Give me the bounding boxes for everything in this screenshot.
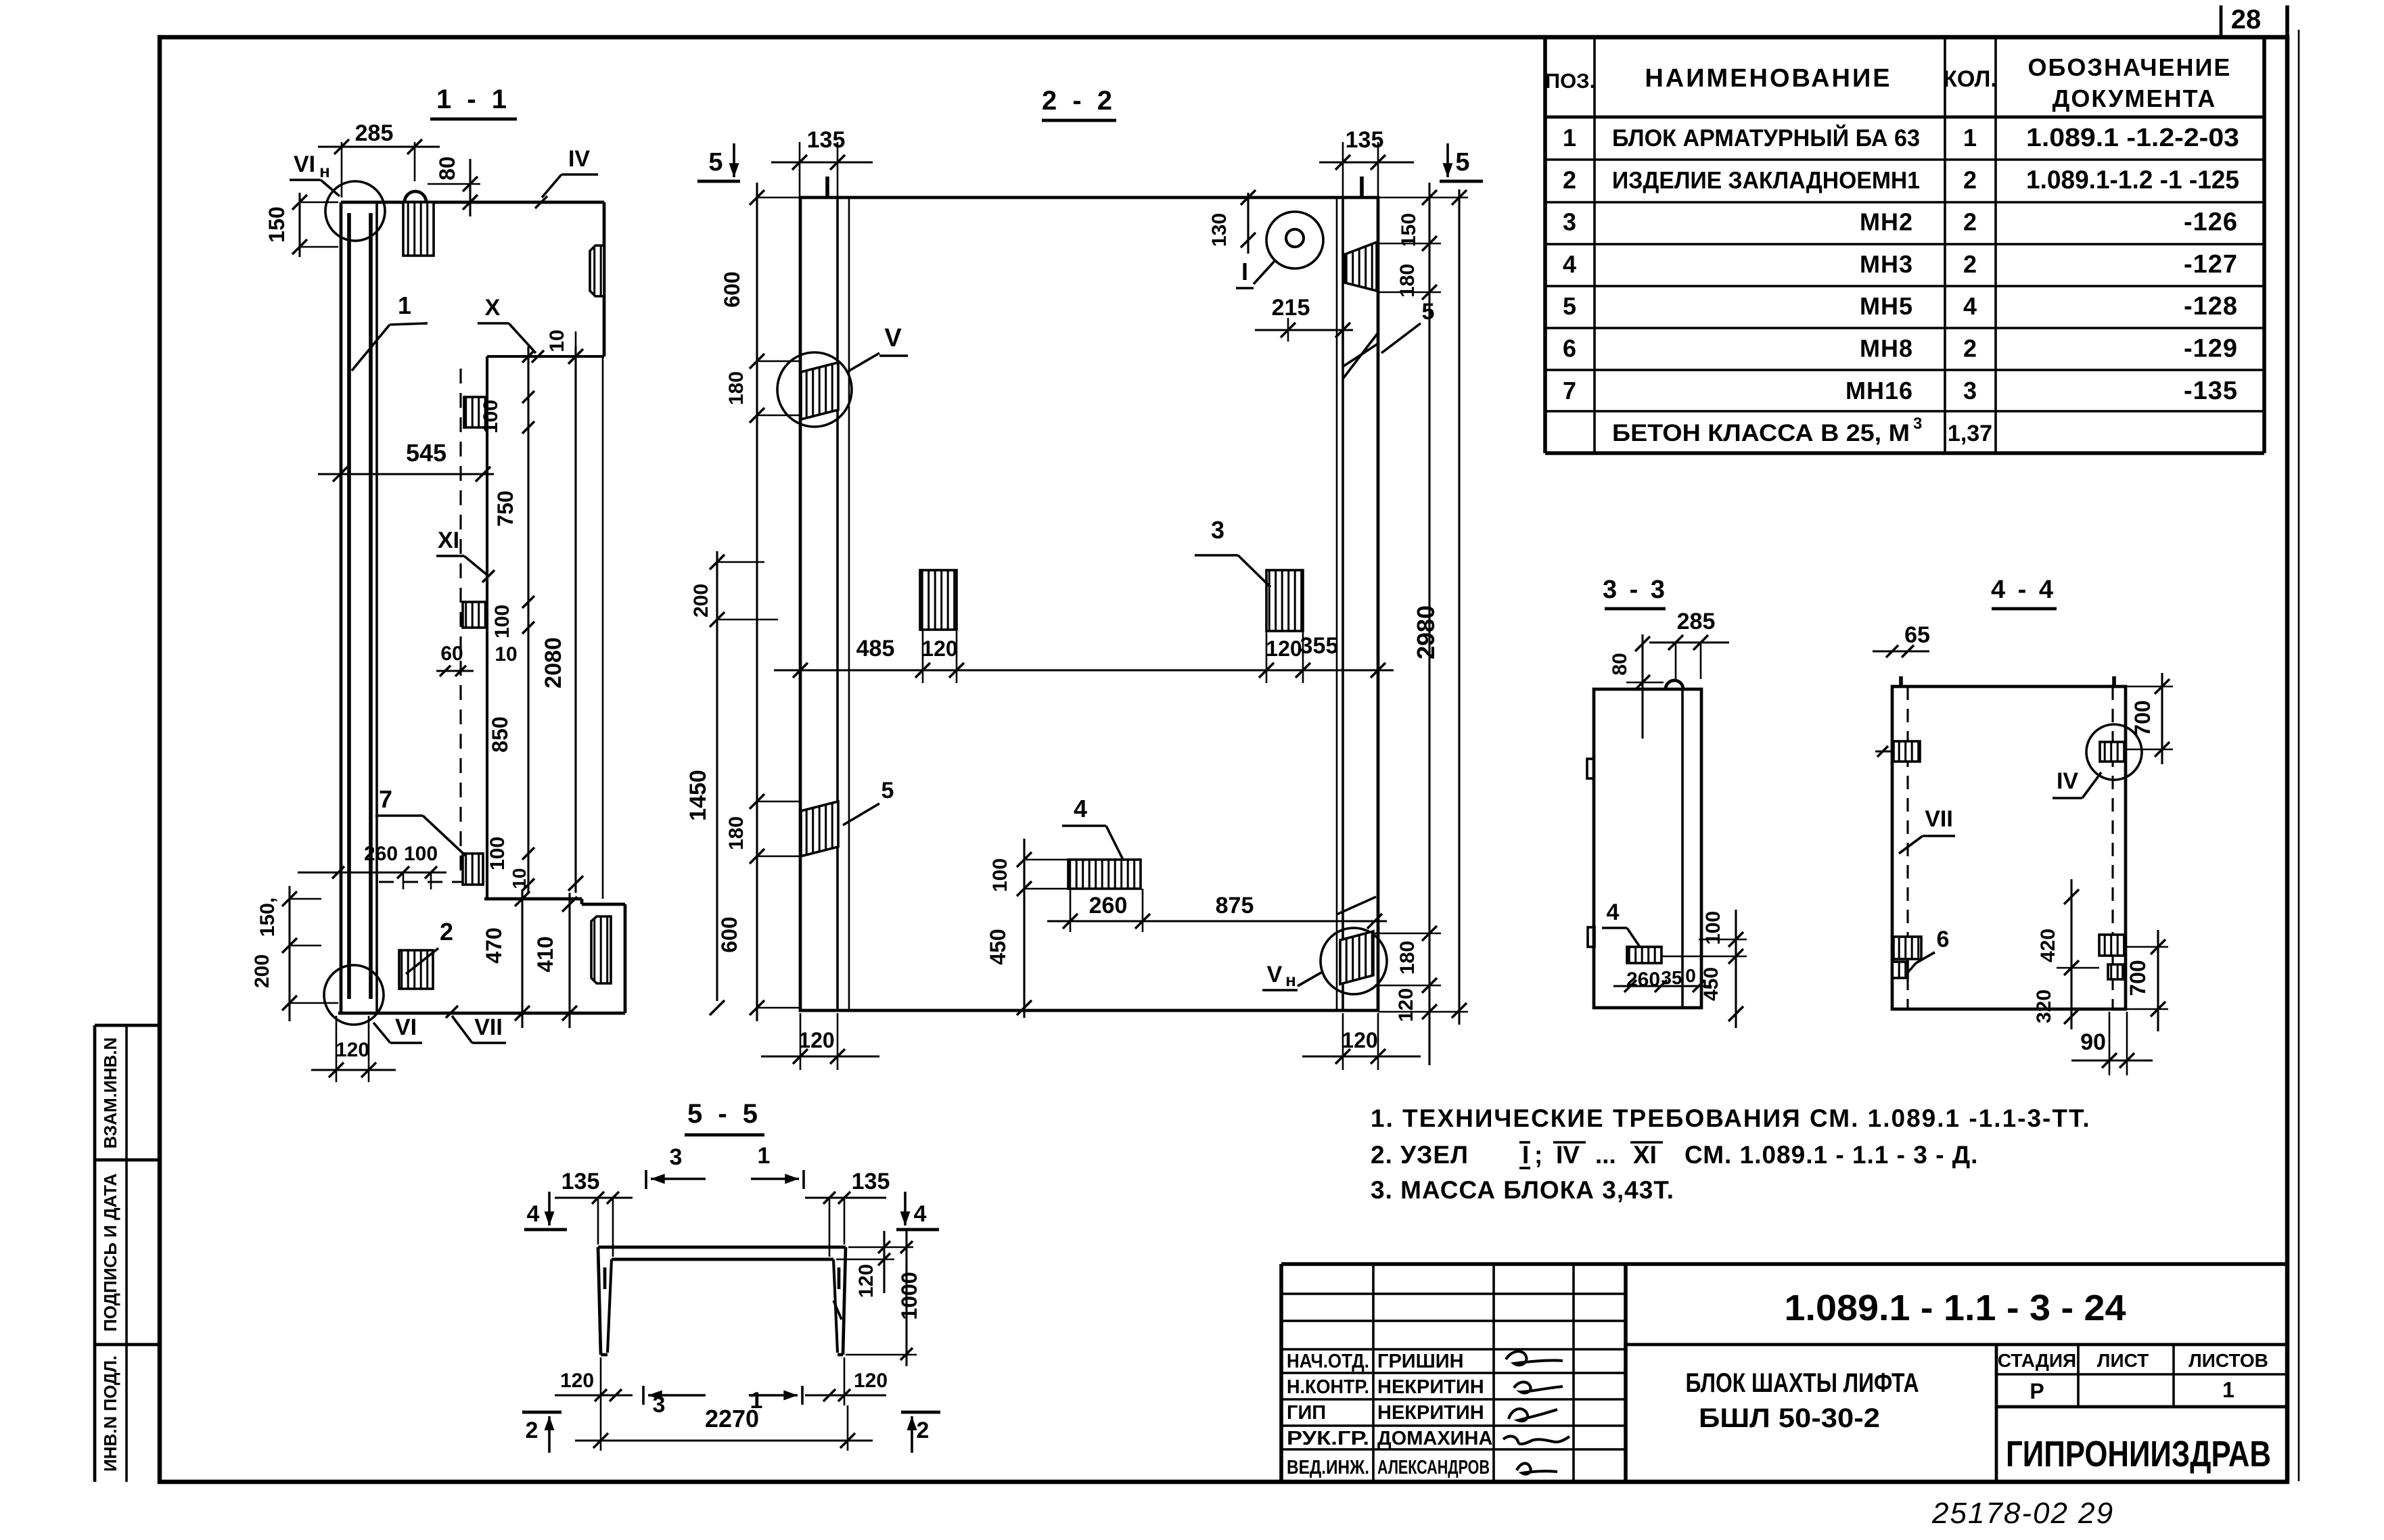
svg-text:3: 3 [1211,516,1224,544]
left outer chain 200 1450 [716,551,718,1001]
signature squiggle 3 [1509,1409,1557,1421]
svg-text:1: 1 [2222,1378,2234,1402]
svg-text:ГИП: ГИП [1287,1402,1326,1424]
svg-text:2 - 2: 2 - 2 [1042,86,1116,116]
svg-text:-127: -127 [2184,250,2238,279]
svg-text:...: ... [1595,1141,1616,1169]
svg-text:VI: VI [294,151,315,177]
svg-text:150,: 150, [256,897,279,937]
svg-text:3: 3 [1963,377,1977,404]
svg-text:V: V [884,324,902,352]
svg-text:120: 120 [1342,1028,1377,1052]
view 1-1 hidden dashed line [459,369,461,879]
svg-text:120: 120 [1266,636,1302,661]
svg-text:1: 1 [758,1143,771,1169]
view 2-2 right wall inner [1342,197,1344,1010]
embedded box 4 bottom [1068,860,1141,889]
svg-text:485: 485 [856,636,895,661]
right paper edge line [2298,30,2300,1481]
svg-text:180: 180 [725,371,748,405]
svg-text:1: 1 [1963,124,1977,151]
svg-text:IV: IV [568,146,590,172]
bar mark left leg [603,1267,607,1289]
svg-text:260: 260 [1626,969,1660,991]
left stamp column boxes [93,1025,97,1482]
svg-text:МН5: МН5 [1860,292,1913,320]
svg-text:;: ; [1534,1141,1542,1169]
view 1-1 step line [486,356,488,899]
svg-text:АЛЕКСАНДРОВ: АЛЕКСАНДРОВ [1377,1457,1490,1478]
svg-text:ВЕД.ИНЖ.: ВЕД.ИНЖ. [1287,1457,1369,1478]
svg-text:НЕКРИТИН: НЕКРИТИН [1377,1402,1484,1424]
svg-text:700: 700 [2126,960,2150,996]
svg-text:28: 28 [2231,5,2262,34]
svg-text:5: 5 [881,778,894,803]
title block outer [1279,1264,1283,1482]
svg-text:200: 200 [690,584,712,617]
svg-text:4: 4 [914,1201,927,1227]
wedge embedded left-lower [801,801,838,856]
embedded plate top-right view4 [2100,742,2125,762]
title block signature grid [1372,1264,1375,1482]
svg-text:875: 875 [1216,893,1254,918]
svg-text:120: 120 [921,636,957,661]
svg-text:БЛОК АРМАТУРНЫЙ БА 63: БЛОК АРМАТУРНЫЙ БА 63 [1612,124,1920,151]
dim 100 450 chain [1023,839,1025,1018]
svg-text:450: 450 [986,929,1010,964]
svg-text:XI: XI [438,528,459,553]
svg-text:100: 100 [480,400,502,434]
embedded box c [463,602,486,628]
edge loop element upper [590,246,604,296]
svg-text:ИНВ.N ПОДЛ.: ИНВ.N ПОДЛ. [100,1355,120,1472]
svg-text:X: X [485,295,501,321]
svg-text:5: 5 [1563,292,1576,320]
svg-text:НЕКРИТИН: НЕКРИТИН [1377,1376,1484,1398]
svg-text:V: V [1267,962,1283,987]
svg-text:135: 135 [561,1169,600,1194]
channel top slab [598,1246,846,1249]
svg-text:7: 7 [1563,377,1576,404]
svg-text:120: 120 [336,1039,369,1061]
svg-text:4: 4 [1607,900,1620,925]
section mark 2 left [522,1411,561,1414]
rebar stub right view4 [2112,676,2116,686]
wedge lines below node I [1343,333,1378,379]
embedded box VH [1340,931,1373,984]
view 1-1 side projection line [602,356,604,899]
node circle top-left [325,181,385,241]
signature squiggle 2 [1514,1382,1563,1393]
embedded box d [463,854,483,885]
svg-text:5 - 5: 5 - 5 [687,1099,762,1129]
embedded box mid-left [920,570,957,630]
signature squiggle 5 [1517,1464,1557,1474]
rebar stub left view4 [1899,676,1903,686]
svg-text:130: 130 [1208,213,1231,247]
svg-text:4 - 4: 4 - 4 [1991,576,2056,604]
svg-text:215: 215 [1272,295,1310,321]
chain dim line 1-1 [527,346,529,893]
svg-text:90: 90 [2080,1029,2106,1055]
view 3-3 top loop [1666,680,1683,689]
svg-text:120: 120 [854,1370,888,1392]
svg-text:180: 180 [1396,941,1419,975]
svg-text:65: 65 [1904,622,1930,648]
view 1-1 left wall outer [340,202,343,1013]
rebar stub left [825,177,829,197]
svg-text:1 - 1: 1 - 1 [436,85,511,114]
view 4-4 outline [1892,686,2126,1009]
svg-text:120: 120 [1395,988,1417,1022]
svg-text:135: 135 [852,1169,890,1194]
svg-text:285: 285 [1677,609,1716,634]
svg-text:4: 4 [1563,250,1576,278]
embedded box 2 bottom-left [399,950,433,989]
view 3-3 left lug lower [1588,927,1595,947]
svg-text:3 - 3: 3 - 3 [1603,576,1668,604]
view 1-1 right edge upper [603,202,606,356]
svg-text:700: 700 [2130,700,2155,736]
svg-text:80: 80 [1609,653,1631,675]
svg-text:120: 120 [798,1028,834,1052]
svg-text:IV: IV [2057,768,2078,794]
svg-text:2: 2 [1963,335,1977,363]
view 2-2 outline [800,197,1378,1010]
svg-text:2: 2 [917,1418,930,1443]
embedded box view3 [1627,947,1661,963]
svg-text:2270: 2270 [705,1405,759,1432]
svg-text:БШЛ 50-30-2: БШЛ 50-30-2 [1699,1403,1880,1433]
embedded part box top [403,202,434,256]
view 4-4 dashed line right [2111,686,2113,1009]
svg-text:450: 450 [1700,967,1722,1001]
svg-text:320: 320 [2033,989,2055,1023]
svg-text:2: 2 [526,1418,538,1443]
svg-text:100: 100 [404,843,438,865]
svg-text:-135: -135 [2184,377,2238,405]
wedge embedded left-upper [801,363,838,419]
svg-text:I: I [1522,1141,1529,1169]
rebar bar right [369,213,373,999]
svg-text:600: 600 [717,916,741,952]
svg-text:135: 135 [807,127,846,153]
view 1-1 hidden dashed bottom [379,881,484,883]
node circle IV view4 [2086,724,2142,780]
svg-text:3: 3 [670,1144,683,1170]
rebar stub right [1360,177,1364,197]
view 3-3 left lug upper [1587,759,1594,778]
svg-text:Н.КОНТР.: Н.КОНТР. [1287,1376,1369,1398]
view 3-3 outline [1594,689,1701,1008]
view 1-1 bottom flange right [624,904,627,1013]
svg-text:ГРИШИН: ГРИШИН [1377,1351,1464,1372]
svg-text:3: 3 [1563,208,1576,236]
svg-text:2: 2 [1963,250,1977,278]
title block main divider [1626,1343,2285,1347]
svg-text:МН2: МН2 [1860,208,1913,236]
page number box [2220,5,2223,37]
svg-text:МН3: МН3 [1860,250,1913,278]
dim 260 875 line [1047,920,1387,922]
embedded box b [464,397,486,427]
svg-text:100: 100 [486,837,509,870]
view 1-1 bottom edge [338,1012,625,1015]
svg-text:XI: XI [1633,1141,1657,1169]
section mark 2 right [901,1411,940,1414]
embedded plate top-left view4 [1894,741,1920,762]
svg-text:1.089.1-1.2 -1 -125: 1.089.1-1.2 -1 -125 [2026,166,2239,194]
svg-text:ГИПРОНИИЗДРАВ: ГИПРОНИИЗДРАВ [2006,1434,2271,1474]
svg-text:ПОДПИСЬ И ДАТА: ПОДПИСЬ И ДАТА [100,1173,120,1332]
svg-text:ВЗАМ.ИНВ.N: ВЗАМ.ИНВ.N [100,1037,120,1149]
svg-text:200: 200 [251,954,273,988]
svg-text:ЛИСТ: ЛИСТ [2097,1350,2149,1371]
svg-text:МН8: МН8 [1860,335,1913,363]
svg-text:3. МАССА БЛОКА 3,43Т.: 3. МАССА БЛОКА 3,43Т. [1371,1176,1674,1204]
svg-text:5: 5 [1455,148,1469,177]
view 1-1 top edge [341,201,604,204]
view 1-1 notch top [487,355,604,358]
svg-text:БЛОК ШАХТЫ ЛИФТА: БЛОК ШАХТЫ ЛИФТА [1686,1368,1919,1398]
svg-text:2080: 2080 [541,637,566,689]
svg-text:2: 2 [1563,166,1576,193]
svg-text:VI: VI [395,1014,417,1040]
svg-text:10: 10 [495,643,517,666]
svg-text:Р: Р [2030,1379,2044,1403]
svg-text:1.089.1 -1.2-2-03: 1.089.1 -1.2-2-03 [2026,124,2239,152]
svg-text:2: 2 [440,918,453,946]
svg-text:1: 1 [1563,124,1576,151]
svg-text:ИЗДЕЛИЕ ЗАКЛАДНОЕМН1: ИЗДЕЛИЕ ЗАКЛАДНОЕМН1 [1612,167,1920,193]
svg-text:ПОЗ.: ПОЗ. [1545,69,1595,93]
signature squiggle 1 [1506,1351,1563,1365]
diagonal mark right leg [833,1301,842,1320]
svg-text:60: 60 [440,643,463,665]
svg-text:2980: 2980 [1412,605,1440,659]
bar mark right leg [838,1267,841,1289]
view 1-1 bottom flange top [484,897,582,901]
view 3-3 inner wall line [1681,689,1684,1008]
svg-text:120: 120 [560,1370,594,1392]
svg-text:420: 420 [2037,929,2059,962]
embedded box mid-right pos3 [1266,570,1303,631]
svg-text:10: 10 [509,868,530,889]
svg-text:СТАДИЯ: СТАДИЯ [1998,1350,2076,1371]
svg-text:СМ. 1.089.1 - 1.1 - 3 - Д.: СМ. 1.089.1 - 1.1 - 3 - Д. [1684,1141,1978,1169]
section mark 5 right [1446,143,1449,177]
svg-text:1000: 1000 [897,1271,921,1320]
svg-text:25178-02 29: 25178-02 29 [1931,1497,2114,1530]
svg-text:285: 285 [355,120,394,146]
svg-text:1,37: 1,37 [1948,421,1992,446]
svg-text:100: 100 [491,605,513,638]
left inner chain [756,183,758,1021]
node circle bottom-left [324,965,384,1025]
svg-text:260: 260 [364,843,398,865]
stadia list listov box [1995,1345,1998,1482]
svg-text:2: 2 [1963,166,1977,193]
node I circle [1266,212,1323,269]
svg-text:н: н [1285,970,1296,990]
svg-text:ДОМАХИНА: ДОМАХИНА [1377,1428,1492,1449]
svg-text:НАЧ.ОТД.: НАЧ.ОТД. [1287,1351,1369,1372]
view 2-2 left wall reveal [848,197,850,1010]
svg-text:3: 3 [1913,415,1922,433]
section mark 4 right [904,1192,907,1226]
svg-text:410: 410 [533,936,557,972]
embedded plate bottom-left view4 [1894,937,1921,959]
parts table grid [1543,37,1547,453]
svg-text:470: 470 [482,927,506,963]
svg-text:РУК.ГР.: РУК.ГР. [1287,1428,1369,1449]
svg-text:н: н [319,161,330,181]
channel left leg [598,1247,601,1355]
view 2-2 right wall reveal [1336,197,1338,1010]
channel right leg [843,1247,846,1355]
svg-text:ДОКУМЕНТА: ДОКУМЕНТА [2053,85,2217,112]
node VH circle [1321,928,1387,994]
svg-text:545: 545 [406,439,446,467]
node I inner circle [1286,229,1304,247]
svg-text:850: 850 [488,716,512,752]
wedge lines bottom-right [1337,897,1376,914]
right chain dim line [1428,183,1430,1065]
svg-text:100: 100 [989,858,1011,892]
svg-text:150: 150 [265,206,289,242]
embedded plate bottom-right view4 [2099,935,2124,956]
svg-text:IV: IV [1556,1141,1580,1169]
svg-text:1450: 1450 [685,770,711,821]
svg-text:750: 750 [493,490,518,526]
view 4-4 dashed line left [1906,686,1908,1009]
svg-text:0: 0 [1685,965,1696,986]
svg-text:-128: -128 [2184,292,2238,321]
rebar bar left [347,213,351,999]
view 2-2 left wall inner [836,197,839,1010]
svg-text:VII: VII [1925,806,1953,832]
note roman overlines [1519,1141,1530,1144]
svg-text:2. УЗЕЛ: 2. УЗЕЛ [1371,1141,1469,1169]
node V circle [777,352,852,427]
svg-text:180: 180 [725,816,748,850]
view 1-1 left wall inner [375,202,378,1013]
svg-text:МН16: МН16 [1846,377,1913,404]
svg-text:ЛИСТОВ: ЛИСТОВ [2188,1350,2268,1371]
svg-text:1.089.1 - 1.1 - 3 - 24: 1.089.1 - 1.1 - 3 - 24 [1785,1288,2126,1328]
svg-text:4: 4 [1074,795,1087,822]
svg-text:600: 600 [720,271,744,307]
svg-text:355: 355 [1300,633,1339,659]
svg-text:БЕТОН КЛАССА В 25, М: БЕТОН КЛАССА В 25, М [1612,420,1910,446]
small plate bottom-left view4 [1892,962,1908,978]
svg-text:КОЛ.: КОЛ. [1943,66,1997,92]
lifting loop top semicircle [405,191,426,202]
svg-text:2: 2 [1963,208,1977,236]
wedge embedded top-right [1345,242,1377,291]
edge loop element lower [591,916,611,983]
svg-text:5: 5 [708,148,723,177]
svg-text:260: 260 [1089,893,1128,918]
svg-text:6: 6 [1937,927,1950,952]
svg-text:7: 7 [379,785,392,813]
mid dim line [774,669,1394,671]
svg-text:I: I [1241,258,1248,285]
small plate bottom-right view4 [2108,964,2123,979]
svg-text:150: 150 [1398,213,1420,247]
svg-text:4: 4 [1963,292,1977,320]
svg-text:10: 10 [546,329,568,352]
svg-text:-129: -129 [2184,335,2238,363]
svg-text:НАИМЕНОВАНИЕ: НАИМЕНОВАНИЕ [1645,64,1892,93]
svg-text:1: 1 [398,291,411,319]
svg-text:120: 120 [855,1264,877,1298]
svg-text:5: 5 [1422,299,1435,325]
svg-text:-126: -126 [2184,208,2238,237]
svg-text:1. ТЕХНИЧЕСКИЕ ТРЕБОВАНИЯ: 1. ТЕХНИЧЕСКИЕ ТРЕБОВАНИЯ СМ. 1.089.1 -1… [1371,1104,2091,1132]
svg-text:4: 4 [527,1201,540,1227]
svg-text:VII: VII [474,1014,503,1040]
svg-text:ОБОЗНАЧЕНИЕ: ОБОЗНАЧЕНИЕ [2028,53,2232,81]
svg-text:35: 35 [1661,967,1682,988]
signature squiggle 4 [1503,1437,1569,1444]
svg-text:80: 80 [435,156,459,181]
svg-text:6: 6 [1563,335,1576,363]
